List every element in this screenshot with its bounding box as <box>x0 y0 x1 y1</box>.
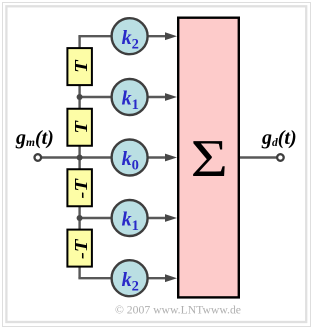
coefficient circle k2 top <box>112 18 148 54</box>
arrowhead row 5 <box>165 274 177 282</box>
coefficient circle k1 lower <box>112 200 148 236</box>
vertical delay-line bus wire <box>78 36 80 278</box>
summer block Σ <box>178 18 239 298</box>
output terminal <box>277 154 284 161</box>
wire row 4 (junction to k1 to summer) <box>80 217 167 219</box>
arrowhead row 3 <box>165 154 177 162</box>
junction dot row 2 <box>77 94 83 100</box>
svg-text:gd(t): gd(t) <box>261 127 297 149</box>
coefficient circle k2 bottom <box>112 260 148 296</box>
wire row 5 (bus corner to k2 to summer) <box>78 277 167 279</box>
junction dot row 4 <box>77 215 83 221</box>
arrowhead row 1 <box>165 32 177 40</box>
svg-text:Σ: Σ <box>191 129 228 187</box>
junction dot row 3 <box>77 155 83 161</box>
delay block T2 <box>67 109 92 146</box>
delay block -T1 <box>67 169 92 206</box>
svg-text:-T: -T <box>72 178 91 199</box>
wire row 2 (junction to k1 to summer) <box>80 96 167 98</box>
svg-text:-T: -T <box>72 238 91 259</box>
coefficient circle k0 <box>112 140 148 176</box>
svg-text:T: T <box>72 59 91 73</box>
coefficient circle k1 upper <box>112 79 148 115</box>
wire row 1 (bus corner to k2 to summer) <box>78 35 167 37</box>
arrowhead row 4 <box>165 214 177 222</box>
svg-text:gm(t): gm(t) <box>15 127 54 149</box>
svg-text:T: T <box>72 120 91 134</box>
delay block -T2 <box>67 230 92 267</box>
input terminal <box>35 154 42 161</box>
arrowhead row 2 <box>165 93 177 101</box>
delay block T1 <box>67 48 92 85</box>
output wire <box>240 156 277 158</box>
svg-text:© 2007 www.LNTwww.de: © 2007 www.LNTwww.de <box>115 304 241 317</box>
wire row 3 (input to k0 to summer) <box>41 156 167 158</box>
